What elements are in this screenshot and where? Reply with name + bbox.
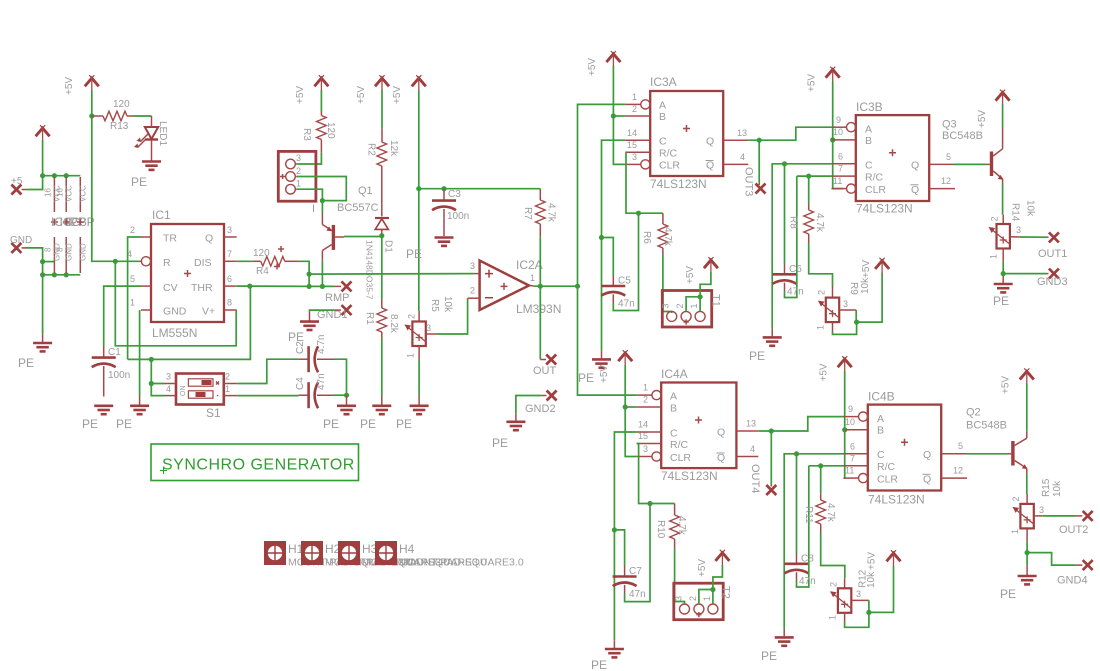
svg-text:MOUNT-PAD-SQUARE3.0: MOUNT-PAD-SQUARE3.0: [399, 557, 524, 569]
pin 7 DIS of IC1: [224, 249, 237, 261]
svg-text:GND2: GND2: [525, 403, 556, 415]
wire +5V to IC3B pins B and CLR: [833, 82, 843, 189]
junction THR bus / S1 branch: [149, 357, 154, 362]
wire CV to C1: [104, 286, 141, 346]
svg-text:3: 3: [1016, 225, 1021, 235]
junction R4/pin3 feed: [307, 272, 312, 277]
wire IC4A pin14 to C7 and ground: [614, 432, 636, 648]
pin 3 of IC2A: [470, 261, 480, 274]
svg-text:R4: R4: [256, 266, 269, 277]
label +5V (above R13): [64, 77, 75, 95]
junction on VCC bus: [40, 173, 69, 178]
pin 10 B of IC3B: [833, 127, 856, 140]
pin 1 A of IC3A (inverted): [625, 92, 650, 109]
pin GND 8 of IC3P: [79, 237, 88, 273]
wire +5 flag to bus: [22, 176, 43, 190]
net flag GND4: [1057, 560, 1093, 586]
svg-text:7: 7: [227, 249, 232, 259]
resistor R8 4.7k: [788, 176, 826, 243]
wire Q3 emitter to R14: [1002, 185, 1004, 215]
svg-text:16: 16: [44, 188, 53, 197]
wire R10 to T2 pin3: [675, 549, 685, 604]
svg-text:2: 2: [632, 104, 637, 114]
svg-text:IC4A: IC4A: [661, 367, 688, 381]
svg-text:Q: Q: [923, 449, 931, 461]
svg-text:5: 5: [946, 152, 951, 162]
wire IC2A output to feedback rail: [534, 285, 578, 287]
ground PE (GND1): [288, 322, 319, 344]
svg-text:PE: PE: [323, 417, 339, 431]
potentiometer R5 10k: [405, 296, 453, 360]
svg-text:C7: C7: [629, 566, 642, 577]
svg-text:PE: PE: [131, 175, 147, 189]
wire R15 pin1 to GND4 and PE: [1027, 542, 1082, 575]
capacitor C3 100n: [432, 189, 469, 236]
svg-text:10: 10: [845, 417, 855, 427]
svg-text:R15: R15: [1041, 478, 1052, 497]
junction IC2A output / R7 / OUT: [538, 284, 543, 289]
wire R1 to PE: [381, 338, 383, 405]
svg-text:R/C: R/C: [659, 147, 678, 159]
pin 2 TR of IC1: [130, 225, 151, 237]
svg-text:2: 2: [470, 286, 475, 296]
label +5V (Q2): [1001, 376, 1012, 394]
diode D1 1N4148: [365, 218, 394, 300]
pin 6 C of IC3B: [832, 151, 856, 163]
svg-text:7: 7: [838, 164, 843, 174]
svg-text:+5V: +5V: [295, 86, 306, 104]
svg-text:120: 120: [113, 99, 130, 110]
pin 1 output of IC2A: [529, 273, 535, 286]
resistor R6 4.7k: [641, 213, 673, 255]
svg-text:IC3B: IC3B: [856, 100, 883, 114]
junction C8 top: [794, 451, 799, 456]
pin VCC 16 of IC4P: [44, 177, 62, 212]
pin 14 C of IC4A: [637, 420, 662, 432]
wire Q1 collector to THR net: [321, 261, 323, 287]
pin VCC 16 of IC3P: [79, 177, 88, 212]
wire GND flag to GND bus: [22, 248, 81, 275]
label +5V (R9): [861, 260, 872, 278]
wire R8 to R9 pin2: [809, 243, 833, 286]
svg-text:4: 4: [166, 384, 171, 394]
svg-text:IC1: IC1: [152, 208, 171, 222]
svg-text:74LS123N: 74LS123N: [650, 177, 707, 191]
svg-text:13: 13: [746, 419, 756, 429]
wire IC4A pin15 R/C: [637, 444, 675, 504]
svg-text:+5V: +5V: [697, 559, 708, 577]
svg-text:Q: Q: [911, 184, 919, 196]
svg-text:Q1: Q1: [358, 185, 373, 197]
svg-text:R5: R5: [429, 299, 440, 312]
wire IC4A Q to IC4B A and OUT4: [758, 417, 843, 431]
svg-text:6: 6: [838, 151, 843, 161]
svg-text:74LS123N: 74LS123N: [868, 493, 925, 507]
+5V supply arrow (R12): [887, 550, 901, 566]
mounting hole H3: [338, 541, 487, 569]
svg-text:3: 3: [166, 372, 171, 382]
svg-text:VCC: VCC: [79, 185, 88, 202]
svg-text:PE: PE: [578, 371, 594, 385]
svg-text:5: 5: [130, 274, 135, 284]
junction IC4B pin B: [842, 427, 847, 432]
svg-text:R3: R3: [301, 128, 312, 141]
svg-text:PE: PE: [1000, 587, 1016, 601]
svg-text:120: 120: [325, 122, 336, 139]
svg-text:12: 12: [953, 466, 963, 476]
svg-text:S1: S1: [206, 406, 221, 420]
svg-text:CLR: CLR: [670, 452, 691, 464]
net flag GND3: [1037, 269, 1068, 288]
svg-text:PE: PE: [18, 356, 34, 370]
svg-text:R9: R9: [848, 282, 859, 295]
label +5V (above C3): [392, 86, 403, 104]
ground PE (IC1 GND): [116, 406, 149, 431]
pin 15 R/C of IC3A: [625, 140, 650, 152]
svg-text:BC557C: BC557C: [337, 202, 379, 214]
label +5V (T2): [697, 559, 708, 577]
junction R/C net: [636, 211, 641, 216]
pin 7 R/C of IC4B: [844, 453, 868, 465]
transistor Q2 BC548B: [966, 407, 1028, 475]
svg-text:LM555N: LM555N: [152, 326, 197, 340]
svg-text:R10: R10: [655, 520, 666, 539]
ground PE (GND2): [492, 422, 525, 450]
power part IC4P origin cross: [51, 215, 78, 229]
svg-text:Q: Q: [717, 452, 725, 464]
svg-text:+5V: +5V: [599, 365, 610, 383]
pin 9 A of IC3B (inverted): [832, 115, 856, 132]
svg-text:10k: 10k: [866, 571, 877, 588]
wire S1 pin1 to C4: [238, 395, 299, 397]
+5V supply arrow (above IC3B): [826, 67, 840, 83]
wire +5V to T1 pins 1-2: [686, 272, 711, 311]
pin 1 of S1: [224, 384, 238, 396]
net flag GND (left power block): [10, 235, 32, 253]
junction at IC1 pin R (+5V rail): [113, 259, 118, 264]
+5V supply arrow (above IC4A): [618, 350, 632, 366]
svg-text:2: 2: [296, 166, 301, 176]
svg-text:R11: R11: [803, 506, 814, 524]
wire C2 to C4 junction: [334, 359, 347, 395]
+5V supply arrow (above R2): [375, 75, 389, 91]
wire R6 to T1 pin3: [663, 255, 672, 313]
pin 12 Qbar of IC3B: [929, 176, 955, 188]
wire +5V to IC4B pins B and CLR: [844, 371, 847, 478]
op-amp IC2A LM393N: [480, 258, 562, 316]
wire JP1 pin2 loop: [297, 177, 347, 201]
svg-text:LM393N: LM393N: [516, 302, 561, 316]
wire +5V arrow to R13 junction and +5V rail down to IC1 pin R: [92, 90, 140, 261]
wire IC4B Q to Q2 base: [966, 453, 1008, 455]
svg-text:PE: PE: [82, 417, 98, 431]
svg-text:1: 1: [296, 179, 301, 189]
pin 4 R of IC1 (inverted): [127, 249, 151, 266]
svg-text:B: B: [659, 111, 666, 123]
capacitor C2 4.7n: [295, 335, 334, 373]
svg-text:C: C: [865, 159, 873, 171]
net flag OUT1: [1038, 232, 1067, 260]
wire IC1 GND down to PE: [139, 310, 141, 405]
label +5V (R12): [867, 552, 878, 570]
svg-text:3: 3: [426, 323, 431, 333]
svg-text:15: 15: [627, 140, 637, 150]
ground PE (IC3B Cext): [749, 337, 782, 363]
wire THR net to RMP flag: [250, 285, 341, 287]
svg-text:4.7n: 4.7n: [316, 335, 327, 354]
svg-text:3: 3: [296, 153, 301, 163]
svg-text:8: 8: [56, 247, 65, 252]
svg-text:IC3P: IC3P: [68, 215, 95, 229]
svg-text:3: 3: [843, 299, 848, 309]
svg-text:1N4148DO35-7: 1N4148DO35-7: [365, 240, 375, 300]
svg-text:R6: R6: [641, 231, 652, 244]
svg-text:1: 1: [828, 615, 838, 620]
ground PE (C2/C4): [323, 395, 356, 431]
svg-text:GND: GND: [10, 235, 32, 246]
svg-text:2: 2: [817, 290, 827, 295]
net flag GND1: [317, 305, 352, 321]
resistor R2 12k: [366, 90, 400, 216]
svg-text:14: 14: [627, 128, 637, 138]
wire +5V rail to V+ (under IC1): [115, 261, 236, 346]
svg-text:R: R: [163, 257, 171, 269]
wire +5V to T2 pins 1-2: [699, 565, 723, 604]
svg-text:2: 2: [225, 372, 230, 382]
pin 13 Q of IC3A: [723, 128, 748, 140]
svg-text:Q: Q: [717, 426, 725, 438]
pin 3 of S1: [164, 372, 176, 384]
potentiometer R12 10k: [828, 569, 878, 621]
svg-text:BC548B: BC548B: [942, 130, 983, 142]
potentiometer R15 10k: [1010, 478, 1063, 541]
svg-text:4: 4: [740, 152, 745, 162]
resistor R1 8.2k: [364, 236, 399, 338]
svg-text:ON: ON: [180, 386, 187, 397]
svg-text:Q3: Q3: [942, 119, 957, 131]
svg-text:B: B: [670, 403, 677, 415]
svg-text:C: C: [670, 427, 678, 439]
pin GND 8 of IC4P: [44, 237, 62, 273]
svg-text:2: 2: [130, 225, 135, 235]
pin 3 CLR of IC4A (inverted): [637, 444, 661, 461]
svg-text:VCC: VCC: [65, 185, 74, 202]
power part IC3P origin cross: [68, 215, 95, 229]
svg-text:PE: PE: [396, 417, 412, 431]
ground PE (under LED1): [131, 162, 161, 190]
svg-text:16: 16: [56, 188, 65, 197]
pin 6 THR of IC1: [224, 274, 237, 286]
svg-text:PE: PE: [360, 417, 376, 431]
label +5V (above IC4A): [599, 365, 610, 383]
junction D1 anode / Q1 base / R1: [379, 233, 384, 238]
svg-text:4.7k: 4.7k: [814, 213, 825, 233]
svg-text:1: 1: [632, 92, 637, 102]
wire R14 pin1 to PE and GND3: [1003, 262, 1048, 283]
pin 15 R/C of IC4A: [637, 431, 662, 443]
svg-text:6: 6: [227, 274, 232, 284]
svg-text:2: 2: [643, 395, 648, 405]
+5V supply arrow (above C3): [412, 75, 426, 91]
junction R14 pin1 / GND3: [1001, 271, 1006, 276]
+5V supply arrow (Q3): [996, 90, 1010, 106]
svg-text:4.7k: 4.7k: [662, 227, 673, 247]
pin 4 of S1: [164, 384, 176, 396]
+5V supply arrow (left power block): [36, 125, 50, 141]
label +5V (above IC3A): [587, 58, 598, 76]
capacitor C8 47n: [785, 454, 816, 587]
mounting hole H1: [264, 541, 413, 569]
pin 4 Qbar of IC3A: [723, 152, 748, 164]
svg-text:R/C: R/C: [877, 461, 896, 473]
pin 5 Q of IC3B: [929, 152, 954, 165]
svg-text:B: B: [865, 135, 872, 147]
svg-text:A: A: [865, 124, 872, 136]
svg-text:IC2A: IC2A: [516, 258, 543, 272]
svg-text:1: 1: [530, 273, 535, 283]
capacitor C1 100n: [92, 346, 131, 397]
THR bus wire (TR-THR-S1): [128, 286, 251, 359]
svg-text:R/C: R/C: [670, 439, 689, 451]
svg-text:14: 14: [638, 420, 648, 430]
svg-text:+5V: +5V: [819, 363, 830, 381]
pin 1 A of IC4A (inverted): [637, 383, 661, 400]
wire R9 pin1 loop: [833, 322, 857, 334]
wire R5 pin1 to PE: [418, 360, 420, 405]
capacitor C4 47n: [295, 373, 334, 408]
pin 9 A of IC4B (inverted): [844, 404, 868, 421]
svg-text:C3: C3: [448, 189, 461, 200]
svg-text:6: 6: [850, 441, 855, 451]
svg-text:THR: THR: [191, 282, 213, 294]
pin 11 CLR of IC4B (inverted): [844, 466, 868, 483]
junction +5V rail / C3 rail: [416, 186, 421, 191]
svg-text:1: 1: [406, 353, 416, 358]
junction C2/C4 ground: [344, 393, 349, 398]
svg-text:10k: 10k: [1025, 200, 1036, 217]
+5V supply arrow (above R3): [314, 75, 328, 91]
label +5V (above IC4B): [819, 363, 830, 381]
svg-text:120: 120: [253, 248, 270, 259]
pin GND 4 of IC2P: [56, 237, 74, 273]
svg-text:GND: GND: [65, 243, 74, 261]
pin 5 CV of IC1: [130, 274, 151, 286]
switch S1 (DIP-2): [176, 374, 224, 421]
junction C3: [441, 186, 446, 191]
mounting hole H2: [301, 541, 450, 569]
wire R3 to JP1 pin 3: [297, 153, 322, 164]
junction T2 pin1 branch: [710, 587, 715, 592]
ground PE (left power block): [18, 343, 52, 370]
svg-text:1: 1: [816, 325, 826, 330]
connector T1: [661, 291, 722, 328]
svg-text:C6: C6: [789, 264, 802, 275]
svg-text:47n: 47n: [787, 287, 804, 298]
+5V supply arrow (above IC3A): [606, 51, 620, 67]
net flag +5: [11, 176, 23, 195]
wire JP1 pin1 to Q1 emitter: [297, 189, 323, 213]
wire C4 to ground junction: [334, 394, 347, 396]
svg-text:R13: R13: [110, 121, 129, 132]
svg-text:R14: R14: [1010, 203, 1021, 222]
junction C7 top: [612, 527, 617, 532]
svg-text:+5V: +5V: [977, 110, 988, 128]
pin 3 Q of IC1: [224, 225, 237, 237]
capacitor C6 47n: [773, 164, 804, 298]
wire ramp node to IC2A pin3: [309, 273, 474, 276]
svg-text:2: 2: [1011, 496, 1021, 501]
svg-text:PE: PE: [749, 349, 765, 363]
wire to OUT4 flag: [770, 431, 772, 487]
+5V supply arrow (above IC4B): [838, 356, 852, 372]
wire R12 wiper to +5V: [869, 566, 894, 612]
label +5V (above R3): [295, 86, 306, 104]
pin 6 C of IC4B: [844, 441, 868, 453]
svg-text:Q: Q: [911, 159, 919, 171]
svg-text:+5: +5: [11, 176, 23, 187]
svg-text:CV: CV: [163, 282, 178, 294]
svg-text:+5V: +5V: [861, 260, 872, 278]
svg-text:Q: Q: [706, 160, 714, 172]
wire GND1 flag to PE: [310, 310, 342, 321]
svg-text:1: 1: [702, 596, 712, 601]
svg-text:10k: 10k: [1052, 480, 1063, 497]
svg-text:C: C: [877, 449, 885, 461]
junction R11 top: [818, 463, 823, 468]
svg-text:+5V: +5V: [356, 86, 367, 104]
svg-text:CLR: CLR: [865, 184, 886, 196]
wire +5V to Q3 collector: [1002, 105, 1004, 129]
svg-text:C8: C8: [801, 554, 814, 565]
pin 2 of IC2A: [468, 286, 480, 299]
+5V supply arrow (R9): [875, 258, 889, 274]
svg-text:2: 2: [688, 596, 698, 601]
wire IC3A pin14 to C5 / ground: [602, 140, 626, 358]
svg-text:PE: PE: [993, 294, 1009, 308]
svg-text:GND4: GND4: [1057, 575, 1088, 587]
svg-text:1: 1: [225, 384, 230, 394]
resistor R13 120: [92, 99, 133, 132]
svg-text:+5V: +5V: [64, 77, 75, 95]
wire +5V stem to VCC bus: [43, 140, 81, 176]
svg-text:+5V: +5V: [685, 266, 696, 284]
wire R12 pin1 loop: [845, 612, 869, 627]
svg-text:PE: PE: [116, 417, 132, 431]
pin 1 GND of IC1: [130, 298, 151, 311]
junction C5 top branch: [599, 235, 604, 240]
svg-text:3: 3: [856, 589, 861, 599]
svg-text:2: 2: [829, 582, 839, 587]
svg-text:BC548B: BC548B: [966, 420, 1007, 432]
svg-text:3: 3: [470, 261, 475, 271]
svg-text:74LS123N: 74LS123N: [661, 469, 718, 483]
svg-text:8: 8: [227, 298, 232, 308]
connector JP1: [278, 151, 316, 215]
net flag OUT2: [1059, 511, 1093, 536]
junction IC4A Q: [769, 428, 774, 433]
svg-text:Q2: Q2: [966, 407, 981, 419]
junction JP1 pins 1-2 / Q1 emitter: [320, 198, 325, 203]
svg-text:5: 5: [958, 441, 963, 451]
wire +5V to Q2 collector: [1026, 384, 1028, 432]
svg-text:3: 3: [643, 444, 648, 454]
svg-text:3: 3: [632, 152, 637, 162]
svg-text:DIS: DIS: [194, 257, 212, 269]
svg-text:1: 1: [689, 303, 699, 308]
ground PE (under R5): [396, 406, 429, 431]
svg-text:GND: GND: [79, 243, 88, 261]
potentiometer R14 10k: [989, 200, 1036, 262]
